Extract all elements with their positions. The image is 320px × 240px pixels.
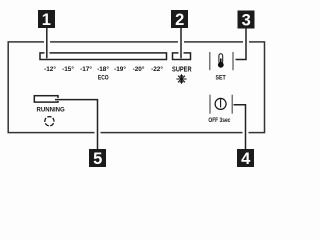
svg-text:-15°: -15° (62, 65, 74, 73)
svg-text:-22°: -22° (151, 65, 163, 73)
svg-text:-17°: -17° (80, 65, 92, 73)
svg-text:-12°: -12° (44, 65, 56, 73)
svg-text:-19°: -19° (114, 65, 126, 73)
svg-text:SET: SET (216, 75, 226, 82)
svg-text:2: 2 (175, 11, 184, 29)
svg-text:5: 5 (93, 150, 102, 168)
svg-text:4: 4 (241, 150, 251, 168)
svg-text:OFF 3sec: OFF 3sec (208, 117, 230, 124)
svg-text:3: 3 (242, 11, 251, 29)
svg-text:-20°: -20° (133, 65, 145, 73)
svg-text:SUPER: SUPER (172, 67, 192, 74)
svg-text:-18°: -18° (97, 65, 109, 73)
svg-text:RUNNING: RUNNING (37, 107, 65, 114)
svg-text:1: 1 (42, 11, 51, 29)
svg-text:ECO: ECO (98, 75, 109, 81)
